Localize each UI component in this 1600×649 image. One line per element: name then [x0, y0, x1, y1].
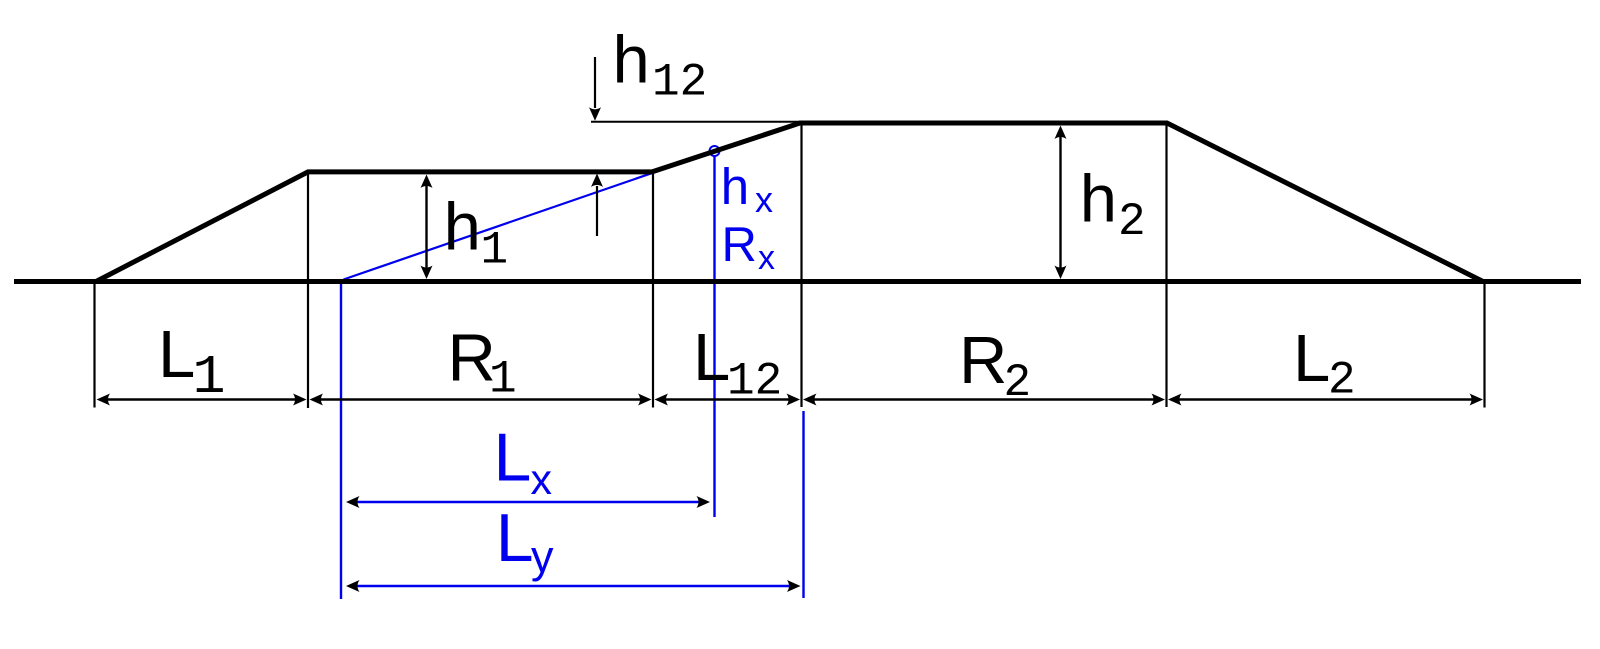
- svg-text:x: x: [758, 239, 775, 277]
- svg-text:x: x: [531, 456, 553, 504]
- blue vertical at origin of Lx/Ly: [340, 282, 342, 599]
- svg-text:L: L: [1293, 321, 1330, 396]
- label R2: [959, 323, 1031, 409]
- label L2: [1293, 321, 1356, 407]
- extension line at first crest start (R1 start): [307, 174, 309, 409]
- svg-text:x: x: [755, 179, 773, 220]
- dimension L2: [1168, 394, 1483, 406]
- label R1: [448, 320, 517, 405]
- label L1: [158, 317, 226, 409]
- svg-text:12: 12: [652, 56, 707, 108]
- extension line at right toe (L2 end): [1483, 281, 1485, 408]
- svg-text:1: 1: [193, 346, 226, 409]
- extension line at first crest end (L12 start): [652, 174, 654, 408]
- dimension Ly (blue line, black arrowheads): [346, 580, 801, 592]
- extension line at left toe (L1 start): [93, 281, 95, 408]
- extension line at second crest end (L2 start): [1165, 124, 1167, 407]
- label Ly: [496, 500, 554, 582]
- h12 extension line of second crest level: [591, 121, 801, 123]
- dimension R2: [803, 394, 1165, 406]
- svg-text:h: h: [444, 190, 481, 265]
- svg-text:1: 1: [481, 225, 509, 277]
- h12 lower arrow (points up to crest-1 level): [591, 174, 603, 237]
- svg-text:h: h: [721, 158, 749, 215]
- label Lx: [494, 419, 553, 504]
- label h2: [1080, 162, 1146, 249]
- ground baseline: [14, 279, 1581, 284]
- svg-text:R: R: [722, 218, 757, 272]
- svg-text:1: 1: [489, 354, 517, 406]
- svg-text:2: 2: [1004, 357, 1032, 409]
- label L12: [693, 320, 782, 408]
- label hx: [721, 158, 773, 220]
- blue vertical through point x down to Lx line: [713, 157, 715, 518]
- svg-text:R: R: [959, 323, 1007, 398]
- dimension h2: [1055, 126, 1067, 280]
- label Rx: [722, 218, 776, 277]
- svg-text:2: 2: [1328, 355, 1356, 407]
- dimension L12: [655, 394, 801, 406]
- blue vertical at right end of Ly: [802, 411, 804, 598]
- embankment profile polyline: [96, 123, 1483, 282]
- svg-text:L: L: [494, 419, 532, 495]
- label h1: [444, 190, 509, 277]
- dimension Lx (blue line, black arrowheads): [346, 496, 710, 508]
- blue point marker (open circle) on upper ramp: [710, 146, 720, 156]
- dimension L1: [97, 394, 307, 406]
- dimension R1: [310, 394, 652, 406]
- h12 upper arrow (points down to crest-2 level): [589, 57, 601, 121]
- dimension h1: [421, 175, 433, 280]
- svg-text:12: 12: [727, 355, 782, 407]
- svg-text:L: L: [496, 500, 534, 576]
- svg-text:L: L: [158, 317, 195, 392]
- blue ramp chord line from Ly origin to point x: [344, 152, 713, 279]
- extension line at second crest start (R2 start): [800, 124, 802, 407]
- svg-text:L: L: [693, 320, 730, 395]
- svg-text:h: h: [1080, 162, 1117, 237]
- svg-text:y: y: [531, 531, 554, 582]
- svg-text:2: 2: [1118, 196, 1146, 248]
- svg-text:h: h: [613, 23, 650, 98]
- label h12: [613, 23, 708, 109]
